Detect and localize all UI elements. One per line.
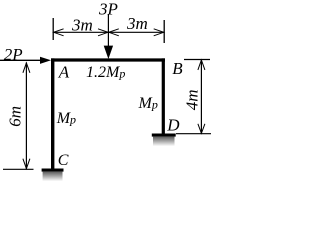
dimension line 3m left segment [53, 29, 108, 36]
svg-text:4m: 4m [183, 89, 202, 110]
support C [42, 169, 64, 182]
column BD [162, 58, 165, 134]
svg-text:D: D [166, 116, 180, 135]
beam AB [51, 58, 165, 61]
svg-text:Mp: Mp [138, 95, 158, 112]
column AC [51, 58, 54, 168]
load 3P arrow [104, 14, 113, 59]
svg-text:B: B [172, 59, 183, 78]
svg-text:3P: 3P [98, 0, 118, 19]
support D [152, 134, 176, 147]
svg-text:Mp: Mp [56, 110, 76, 127]
svg-text:C: C [58, 152, 69, 169]
dimension tick right [163, 20, 165, 43]
extension line bottom right [176, 133, 211, 135]
svg-text:3m: 3m [71, 16, 93, 35]
svg-text:6m: 6m [6, 106, 25, 127]
svg-text:1.2Mp: 1.2Mp [86, 64, 125, 81]
dimension line 3m right segment [108, 29, 164, 36]
svg-text:2P: 2P [4, 45, 23, 64]
dimension line 4m [198, 60, 205, 134]
extension line bottom left [3, 168, 34, 170]
extension line top right [184, 59, 210, 61]
svg-text:A: A [58, 63, 70, 82]
svg-text:3m: 3m [126, 14, 148, 33]
dimension tick left [52, 18, 54, 40]
load 2P arrow [0, 57, 51, 64]
dimension line 6m [23, 63, 30, 170]
